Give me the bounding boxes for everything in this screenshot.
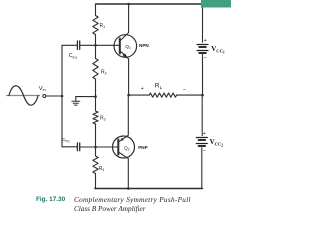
svg-text:NPN: NPN <box>139 43 149 48</box>
sine source wave <box>9 86 38 105</box>
Q2 base bar <box>117 140 119 155</box>
svg-text:Vin: Vin <box>39 86 46 92</box>
svg-text:R1: R1 <box>100 23 106 29</box>
node: R2/R3/ground <box>94 95 97 98</box>
wire: right rail upper (to VCC1) <box>202 4 204 42</box>
node: collector junction top <box>127 3 130 6</box>
capacitor Cin1 <box>76 41 78 49</box>
svg-text:Cin2: Cin2 <box>62 137 70 144</box>
Q2 emitter arrow (points toward bar) <box>120 138 124 141</box>
resistor RL <box>149 93 176 97</box>
green corner block <box>201 0 231 8</box>
resistor R3 <box>93 97 98 147</box>
Q1 emitter <box>120 51 129 95</box>
capacitor Cin1 wire right / base wire Q1 <box>80 44 120 46</box>
capacitor Cin2 <box>76 143 78 151</box>
transistor Q2 circle <box>113 136 135 158</box>
svg-text:−: − <box>204 55 207 61</box>
svg-text:R4: R4 <box>99 166 105 172</box>
capacitor Cin1 wire left <box>62 44 77 46</box>
sine source axis <box>7 95 40 97</box>
wire: input rail (left vertical) <box>61 45 63 147</box>
node: R1/R2/base1 <box>94 44 97 47</box>
node: RL left junction <box>127 94 130 97</box>
resistor R2 <box>93 45 98 96</box>
svg-text:+: + <box>141 86 144 92</box>
resistor R1 <box>93 4 98 45</box>
Q2 collector (down) <box>118 152 128 189</box>
Q1 collector <box>120 4 129 41</box>
caption line 1 <box>74 196 191 204</box>
svg-text:+: + <box>204 38 207 44</box>
Q1 emitter arrow <box>123 53 129 58</box>
svg-text:−: − <box>203 148 206 154</box>
ground branch wire <box>76 96 96 98</box>
caption line 2 <box>74 205 146 213</box>
svg-text:VCC1: VCC1 <box>211 45 225 55</box>
svg-text:L: L <box>160 85 163 90</box>
wire: right rail to VCC2 <box>201 95 203 136</box>
capacitor Cin2 wire right / base wire Q2 <box>80 146 119 148</box>
resistor R4 <box>93 147 98 189</box>
svg-text:Q1: Q1 <box>125 44 131 50</box>
capacitor Cin2 wire left <box>62 146 77 148</box>
svg-text:PNP: PNP <box>138 145 147 150</box>
svg-text:+: + <box>203 131 206 137</box>
node: Vin junction <box>61 95 64 98</box>
node: collector junction bottom <box>127 187 130 190</box>
svg-text:Cin1: Cin1 <box>69 53 78 60</box>
transistor Q1 circle <box>114 35 137 58</box>
svg-text:Q2: Q2 <box>124 145 130 151</box>
svg-text:−: − <box>183 87 186 93</box>
bottom wire <box>95 188 203 190</box>
battery VCC1 <box>197 45 208 54</box>
RL wire right <box>177 94 203 96</box>
svg-text:VCC2: VCC2 <box>210 138 224 148</box>
Q1 base bar <box>119 39 121 54</box>
battery VCC2 <box>196 138 207 147</box>
node: RL right junction <box>201 94 204 97</box>
RL wire left <box>129 94 150 96</box>
input terminal circle <box>43 95 46 98</box>
Q2 emitter (up) <box>118 95 128 142</box>
wire: Vin to rail <box>46 95 62 97</box>
svg-text:R2: R2 <box>101 70 107 76</box>
wire: right rail lower (VCC2 to bottom) <box>201 148 204 189</box>
caption figure number <box>36 196 65 203</box>
top wire <box>96 3 203 5</box>
svg-text:R3: R3 <box>100 116 106 122</box>
ground <box>72 97 80 106</box>
node: R3/R4/base2 <box>94 146 97 149</box>
wire: right rail mid (VCC1 to RL node) <box>202 55 204 96</box>
